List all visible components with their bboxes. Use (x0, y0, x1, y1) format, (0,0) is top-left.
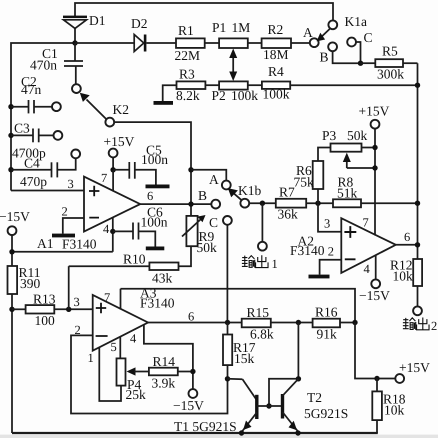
svg-text:+15V: +15V (104, 134, 135, 149)
node base rail junction (266, 403, 271, 408)
svg-text:300k: 300k (377, 67, 404, 82)
svg-text:F3140: F3140 (62, 237, 97, 252)
+15V terminal A1 (104, 134, 135, 173)
ground at C6 (146, 247, 165, 251)
pin 4 A1 (103, 218, 116, 252)
capacitor C5 (113, 143, 168, 185)
ground at C5 (146, 185, 170, 189)
resistor R3 (176, 67, 219, 104)
resistor R10 (69, 252, 191, 286)
svg-text:10k: 10k (393, 269, 414, 284)
resistor R18 (372, 379, 405, 434)
svg-text:47n: 47n (21, 82, 42, 97)
wire +15V rail A3 (121, 289, 356, 323)
node R14 junction (190, 369, 195, 374)
node R15/R16 junction (296, 320, 301, 325)
potentiometer P3 (318, 128, 375, 161)
svg-text:−15V: −15V (173, 398, 204, 413)
contact B of K1a (320, 42, 361, 64)
pin 2 A2 wire (320, 245, 342, 275)
ganged wiper arrow P1-P2 (229, 49, 237, 82)
svg-text:51k: 51k (337, 186, 358, 201)
capacitor C2 (8, 74, 61, 113)
svg-text:4: 4 (130, 332, 137, 346)
output 2 terminal (413, 306, 422, 315)
wire mirror node drop (269, 323, 298, 407)
node K1b pivot junction (249, 201, 276, 206)
svg-text:R1: R1 (178, 23, 194, 38)
wire top rail from D1 to K1a (75, 3, 333, 21)
svg-text:R4: R4 (268, 64, 284, 79)
pin 3 A2 wire (318, 203, 341, 232)
svg-text:4: 4 (364, 262, 371, 276)
-15V terminal P4 (173, 389, 204, 413)
svg-text:25k: 25k (126, 387, 147, 402)
svg-text:+15V: +15V (359, 104, 390, 119)
switch K1b (228, 183, 262, 208)
pin 6 A2 output wire (396, 230, 420, 248)
svg-text:K1a: K1a (345, 14, 368, 29)
svg-text:5G921S: 5G921S (304, 406, 348, 421)
svg-text:6: 6 (404, 230, 410, 244)
svg-text:100k: 100k (231, 88, 258, 103)
svg-text:P3: P3 (322, 128, 337, 143)
svg-text:R2: R2 (268, 22, 284, 37)
wire D2 row (75, 42, 134, 44)
pin 2 A3 wire (71, 323, 228, 414)
variable resistor R9 (182, 215, 217, 255)
svg-text:R13: R13 (33, 292, 56, 307)
svg-text:10k: 10k (384, 403, 405, 418)
output 1 terminal (258, 203, 267, 250)
svg-text:P1: P1 (212, 20, 226, 35)
svg-text:F3140: F3140 (290, 243, 325, 258)
svg-text:50k: 50k (197, 240, 218, 255)
svg-text:3: 3 (324, 217, 330, 231)
ground at R3 (154, 85, 177, 105)
svg-text:T1 5G921S: T1 5G921S (174, 419, 237, 434)
svg-text:1M: 1M (232, 20, 251, 35)
svg-text:3.9k: 3.9k (152, 376, 176, 391)
label output 2 (403, 317, 437, 333)
-15V terminal left (0, 209, 30, 266)
resistor R16 (313, 305, 355, 342)
svg-text:R15: R15 (247, 305, 270, 320)
resistor R8 (333, 175, 418, 208)
svg-text:7: 7 (104, 291, 110, 305)
svg-text:100n: 100n (141, 215, 168, 230)
resistor R6 (294, 161, 324, 203)
pin 2 A1 wire (62, 205, 85, 234)
resistor R15 (242, 305, 313, 342)
resistor R12 (390, 258, 422, 307)
node B/C junction (358, 61, 363, 66)
ground at A2 pin 2 (309, 275, 330, 279)
svg-text:6: 6 (147, 189, 153, 203)
svg-text:+15V: +15V (399, 360, 430, 375)
contact C of K1b (209, 215, 232, 323)
svg-text:D1: D1 (89, 13, 106, 28)
svg-text:P2: P2 (212, 88, 226, 103)
svg-text:2: 2 (62, 205, 68, 219)
svg-text:C: C (364, 30, 373, 45)
node R8 right junction (415, 201, 420, 206)
svg-text:C: C (209, 215, 218, 230)
diode D1 (63, 13, 106, 43)
svg-text:−15V: −15V (359, 288, 390, 303)
capacitor C6 (113, 205, 168, 247)
svg-text:−15V: −15V (0, 209, 30, 224)
svg-text:D2: D2 (131, 16, 148, 31)
svg-text:C4: C4 (24, 156, 40, 171)
switch K2 (80, 93, 129, 127)
svg-text:100: 100 (35, 313, 56, 328)
pin 6 A1 output wire (140, 189, 211, 204)
wire T1 collector (228, 379, 258, 401)
svg-text:5: 5 (111, 340, 117, 354)
svg-text:100n: 100n (141, 152, 168, 167)
svg-text:75k: 75k (294, 175, 315, 190)
svg-text:3: 3 (68, 177, 74, 191)
pin 7 A1 (101, 170, 113, 192)
contact C of K1a (347, 30, 372, 63)
svg-text:A: A (209, 172, 219, 187)
resistor R1 (175, 23, 220, 63)
svg-text:1: 1 (88, 351, 94, 365)
wiper P3 (343, 153, 375, 168)
+15V terminal bottom right (395, 360, 430, 383)
pin 3 A3 (74, 295, 80, 309)
svg-text:R14: R14 (153, 354, 176, 369)
svg-text:B: B (198, 188, 207, 203)
pin 1 A3 wire (88, 347, 122, 401)
svg-text:R10: R10 (123, 252, 146, 267)
svg-text:K2: K2 (113, 102, 130, 117)
pin 4 A3 wire (130, 325, 193, 390)
resistor R7 (276, 185, 333, 222)
resistor R14 (127, 354, 193, 391)
svg-text:4: 4 (103, 222, 110, 236)
svg-text:R16: R16 (315, 305, 338, 320)
svg-text:6: 6 (188, 310, 194, 324)
svg-text:2: 2 (328, 245, 334, 259)
capacitor C3 (8, 121, 62, 161)
pin 4 A2 (359, 255, 390, 303)
wire left rail top (11, 43, 75, 191)
contact A of K1b (191, 170, 231, 190)
op-amp A2 (290, 218, 396, 273)
svg-text:470p: 470p (20, 174, 47, 189)
ground at A1 pin 2 (52, 234, 75, 238)
svg-text:3: 3 (74, 295, 80, 309)
svg-text:7: 7 (363, 216, 369, 230)
node A3 pin3 junction (66, 307, 71, 312)
node R4/R5 junction (415, 83, 420, 88)
pin 7 A2 (363, 216, 369, 230)
wire right rail (417, 63, 419, 259)
node T1 collector junction (225, 376, 230, 381)
resistor R5 (361, 44, 418, 82)
node C contact junction (225, 320, 230, 325)
resistor R11 (8, 265, 41, 433)
node R6/R7 junction (315, 201, 320, 206)
svg-text:50k: 50k (347, 128, 368, 143)
svg-text:390: 390 (20, 276, 41, 291)
wire -15V rail to A1 pin4 (12, 251, 113, 253)
transistor T1 (174, 395, 257, 434)
switch K1a (303, 14, 367, 47)
node A1 output junction (188, 167, 193, 207)
wire R16 junction to +15V (355, 323, 400, 379)
svg-text:91k: 91k (317, 327, 338, 342)
node R18 top junction (374, 376, 379, 381)
resistor R17 (223, 323, 256, 379)
node R16 right junction (352, 320, 357, 325)
resistor R13 (12, 292, 93, 329)
pin 5 A3 wire (111, 337, 121, 359)
op-amp A1 (37, 177, 140, 252)
svg-text:7: 7 (101, 171, 107, 185)
svg-text:18M: 18M (263, 47, 289, 62)
+15V terminal A2 (359, 104, 390, 236)
transistor T2 (283, 379, 349, 432)
node junction D1/C1/D2 (72, 40, 77, 45)
svg-text:470n: 470n (30, 58, 57, 73)
svg-text:A1: A1 (37, 236, 54, 251)
svg-text:8.2k: 8.2k (176, 88, 200, 103)
svg-text:F3140: F3140 (140, 296, 175, 311)
svg-text:2: 2 (431, 319, 437, 333)
label output 1 (242, 255, 278, 271)
potentiometer P2 (212, 81, 262, 103)
svg-text:B: B (320, 50, 329, 65)
potentiometer P4 (117, 358, 147, 402)
svg-text:T2: T2 (307, 390, 322, 405)
wire riser to R10 (68, 266, 70, 309)
capacitor C4 (8, 150, 80, 190)
pin 7 A3 (104, 289, 121, 310)
svg-text:43k: 43k (152, 271, 173, 286)
svg-text:15k: 15k (234, 351, 255, 366)
node mirror corner (296, 376, 301, 381)
svg-text:22M: 22M (175, 48, 201, 63)
svg-text:36k: 36k (278, 207, 299, 222)
svg-text:6.8k: 6.8k (250, 327, 274, 342)
diode D2 (131, 16, 176, 52)
node R13 junction (9, 307, 14, 312)
capacitor C1 (30, 43, 83, 93)
wire bottom rail (12, 430, 378, 435)
pin 3 A1 wire (11, 177, 84, 191)
pin 6 A3 output wire (148, 310, 242, 324)
svg-text:R3: R3 (179, 67, 195, 82)
svg-text:A: A (303, 25, 313, 40)
resistor R4 (262, 64, 418, 102)
svg-text:K1b: K1b (238, 183, 261, 198)
contact B of K1b (198, 188, 220, 209)
wire R9 bottom to R10 (190, 246, 193, 266)
potentiometer P1 (212, 20, 262, 48)
svg-text:R5: R5 (382, 44, 398, 59)
svg-text:C3: C3 (14, 121, 30, 136)
svg-text:2: 2 (75, 323, 81, 337)
svg-text:1: 1 (272, 257, 278, 271)
wire K2 to A1 column (114, 122, 191, 216)
op-amp A3 (93, 286, 175, 351)
wire base rail (257, 405, 283, 407)
svg-text:100k: 100k (263, 87, 290, 102)
resistor R2 (262, 22, 310, 62)
